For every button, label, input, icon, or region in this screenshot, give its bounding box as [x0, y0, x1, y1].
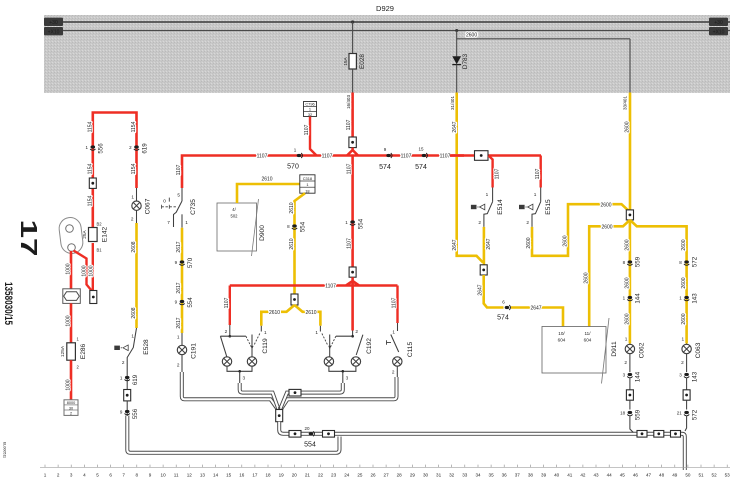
svg-text:40: 40	[554, 473, 560, 478]
wire 1000 below E286	[65, 360, 71, 400]
earth merge connector box	[276, 407, 283, 422]
svg-text:1: 1	[294, 148, 297, 153]
earth lead return to E528	[127, 416, 339, 453]
connector 574 pin15	[415, 147, 427, 172]
svg-text:15: 15	[226, 473, 232, 478]
earth lead C119 to merge	[240, 383, 279, 409]
svg-text:574: 574	[497, 315, 509, 322]
svg-text:554: 554	[358, 218, 365, 229]
svg-text:17: 17	[252, 473, 258, 478]
svg-text:37: 37	[515, 473, 521, 478]
connector box on E528 earth	[124, 390, 131, 401]
junction Y 1107	[347, 148, 358, 156]
connector 554 pin9	[175, 297, 194, 308]
svg-text:1: 1	[315, 330, 318, 335]
svg-text:1000: 1000	[89, 265, 95, 276]
switch C735	[162, 198, 197, 228]
svg-text:28: 28	[397, 473, 403, 478]
main wire 1107 horizontal trunk	[182, 156, 541, 189]
svg-text:E028: E028	[359, 54, 366, 69]
connector box on 1154	[89, 178, 96, 188]
svg-text:31/401: 31/401	[450, 96, 455, 110]
svg-text:8000: 8000	[67, 401, 75, 405]
wire 1107 drop to E514	[489, 156, 501, 188]
svg-text:619: 619	[141, 143, 148, 154]
svg-text:39: 39	[541, 473, 547, 478]
svg-text:29: 29	[410, 473, 416, 478]
svg-text:2: 2	[122, 360, 125, 365]
svg-text:2610: 2610	[261, 177, 272, 183]
svg-text:E515: E515	[545, 199, 552, 215]
svg-text:18: 18	[305, 188, 309, 193]
wire 2617 C735 to C191	[176, 228, 182, 333]
svg-text:8: 8	[287, 224, 290, 229]
svg-text:2600: 2600	[624, 239, 630, 250]
connector box 554 area a	[289, 431, 301, 438]
svg-text:10: 10	[161, 473, 167, 478]
svg-text:1: 1	[534, 192, 537, 197]
svg-text:1000: 1000	[65, 263, 71, 274]
svg-text:2600: 2600	[600, 202, 611, 208]
fuse E286	[60, 337, 87, 370]
svg-text:8: 8	[623, 260, 626, 265]
svg-text:572: 572	[691, 409, 698, 420]
svg-text:2600: 2600	[681, 239, 687, 250]
svg-text:+X10: +X10	[48, 29, 60, 35]
svg-text:31: 31	[436, 473, 442, 478]
svg-text:2617: 2617	[176, 317, 182, 328]
svg-text:C192: C192	[366, 338, 373, 354]
svg-text:1: 1	[264, 330, 267, 335]
svg-text:E142: E142	[102, 226, 109, 242]
svg-text:2647: 2647	[452, 121, 458, 132]
svg-text:16: 16	[239, 473, 245, 478]
svg-text:1107: 1107	[304, 124, 310, 135]
connector box 554 area b	[323, 431, 335, 438]
rail tag right top	[709, 18, 728, 26]
svg-text:+30: +30	[714, 20, 723, 26]
connector box right bus c	[671, 431, 681, 438]
svg-text:+X10: +X10	[713, 29, 725, 35]
connector box right bus b	[654, 431, 664, 438]
svg-text:50: 50	[685, 473, 691, 478]
svg-text:20: 20	[304, 426, 310, 431]
wire 1107 drop to E515	[535, 156, 541, 188]
wire 1000 pillar to ring terminal	[74, 251, 92, 291]
svg-text:26: 26	[370, 473, 376, 478]
svg-text:2: 2	[77, 365, 80, 370]
wire 1107 to C119	[224, 286, 230, 326]
svg-text:2: 2	[131, 217, 134, 222]
svg-text:5: 5	[177, 193, 180, 198]
svg-text:1154: 1154	[131, 163, 137, 174]
svg-text:25: 25	[357, 473, 363, 478]
svg-text:8: 8	[136, 473, 139, 478]
svg-text:1107: 1107	[440, 154, 451, 160]
svg-text:C063: C063	[695, 342, 702, 358]
svg-text:36: 36	[502, 473, 508, 478]
wire 1107 from C796	[304, 117, 317, 156]
wire 2600 from E515 to node	[526, 202, 628, 256]
svg-text:1154: 1154	[87, 121, 93, 132]
svg-text:2608: 2608	[131, 307, 137, 318]
wire 2600 node to D911 pin11	[584, 220, 630, 327]
svg-text:1107: 1107	[346, 119, 352, 130]
svg-text:C318: C318	[303, 176, 312, 181]
svg-text:619: 619	[132, 374, 139, 385]
svg-text:11: 11	[174, 473, 179, 478]
svg-text:32: 32	[308, 112, 312, 117]
svg-text:C735: C735	[190, 199, 197, 215]
svg-text:E286: E286	[80, 343, 87, 359]
svg-text:1000: 1000	[65, 315, 71, 326]
fuse E142	[82, 222, 109, 253]
svg-text:2: 2	[478, 220, 481, 225]
ruler ticks and numbers	[44, 465, 730, 478]
svg-text:C062: C062	[638, 342, 645, 358]
wire 2600 node to C062	[624, 220, 630, 344]
connector 619 pin2	[129, 143, 148, 154]
svg-text:27: 27	[384, 473, 390, 478]
wire 2600 in band	[457, 33, 630, 39]
svg-text:43: 43	[593, 473, 599, 478]
svg-text:42: 42	[580, 473, 586, 478]
svg-text:2647: 2647	[478, 284, 484, 295]
connector ref box C796	[304, 102, 317, 117]
svg-text:554: 554	[187, 297, 194, 308]
wire 1000 from E142 B1	[89, 243, 95, 291]
lamp C063	[681, 337, 702, 373]
svg-text:1000: 1000	[81, 265, 87, 276]
svg-text:1: 1	[681, 337, 684, 342]
svg-text:7: 7	[122, 473, 125, 478]
wire 1107 center down	[347, 156, 353, 268]
svg-text:47: 47	[646, 473, 652, 478]
svg-text:C067: C067	[144, 198, 151, 214]
connector box on 1107 feed	[349, 137, 356, 148]
svg-text:45: 45	[620, 473, 626, 478]
svg-text:1107: 1107	[176, 164, 182, 175]
svg-text:1107: 1107	[392, 297, 398, 308]
svg-text:1: 1	[77, 337, 80, 342]
lamp cluster C119	[220, 325, 269, 383]
wire 1107 to C115	[392, 286, 398, 324]
svg-text:6: 6	[502, 300, 505, 305]
svg-text:35: 35	[489, 473, 495, 478]
svg-text:6: 6	[109, 473, 112, 478]
svg-text:1: 1	[345, 220, 348, 225]
svg-text:1154: 1154	[87, 163, 93, 174]
svg-text:2617: 2617	[176, 241, 182, 252]
wire E028 lower in band	[352, 69, 354, 93]
svg-text:24: 24	[344, 473, 350, 478]
connector box 2610 junction	[291, 294, 298, 305]
svg-text:1: 1	[120, 376, 123, 381]
earth lead bottom run	[279, 422, 685, 470]
lamp C191	[177, 333, 198, 372]
svg-text:9: 9	[120, 410, 123, 415]
svg-text:2617: 2617	[176, 282, 182, 293]
connector 554 pin8	[287, 221, 306, 232]
svg-text:2: 2	[355, 329, 358, 334]
svg-text:0: 0	[163, 199, 166, 204]
wire 1000 pillar down	[65, 251, 71, 289]
connector 574 pin6	[497, 300, 510, 322]
wire above diode	[456, 39, 458, 57]
switch E514	[471, 188, 504, 227]
svg-text:572: 572	[691, 256, 698, 267]
diode D783	[452, 53, 469, 69]
svg-text:10/: 10/	[558, 331, 565, 336]
svg-text:13: 13	[200, 473, 206, 478]
svg-text:1: 1	[679, 296, 682, 301]
svg-text:EL000511: EL000511	[3, 442, 7, 458]
svg-text:554: 554	[300, 221, 307, 232]
wire 1107 from fuse E028 down	[346, 93, 352, 138]
svg-text:1: 1	[486, 192, 489, 197]
svg-text:C119: C119	[262, 338, 269, 354]
svg-text:34: 34	[475, 473, 481, 478]
connector 570 pin9	[175, 257, 194, 268]
svg-text:1107: 1107	[322, 154, 333, 160]
power rail +30	[44, 21, 730, 23]
wire C735 pin5	[177, 188, 182, 201]
svg-text:1: 1	[44, 473, 47, 478]
wire 1154 bridge	[87, 113, 137, 228]
fuse E028	[343, 54, 366, 70]
svg-text:556: 556	[98, 143, 105, 154]
svg-text:570: 570	[187, 257, 194, 268]
svg-text:33: 33	[462, 473, 468, 478]
svg-text:2610: 2610	[289, 202, 295, 213]
svg-text:5: 5	[96, 473, 99, 478]
svg-text:D783: D783	[462, 53, 469, 69]
svg-text:18: 18	[620, 411, 626, 416]
earth C062 with connectors	[620, 371, 642, 432]
svg-text:53: 53	[725, 473, 731, 478]
ring terminal box	[90, 291, 97, 304]
svg-text:2600: 2600	[466, 33, 477, 39]
svg-text:1: 1	[185, 220, 188, 225]
earth lead C115 to merge	[281, 377, 396, 409]
connector 570 pin1	[287, 148, 302, 171]
svg-text:1107: 1107	[347, 238, 353, 249]
svg-text:3: 3	[623, 373, 626, 378]
svg-text:143: 143	[691, 371, 698, 382]
rail tag left top	[44, 18, 63, 26]
svg-text:604: 604	[558, 338, 566, 343]
wire 2647 to D911	[511, 306, 563, 327]
svg-text:570: 570	[287, 164, 299, 171]
svg-text:2608: 2608	[131, 241, 137, 252]
svg-text:15A: 15A	[343, 56, 349, 65]
svg-text:559: 559	[635, 409, 642, 420]
svg-text:2647: 2647	[530, 306, 541, 312]
svg-text:49: 49	[672, 473, 678, 478]
svg-text:144: 144	[635, 371, 642, 382]
wire 2610 from C318 down	[289, 193, 305, 294]
svg-text:46: 46	[633, 473, 639, 478]
wire 2610 split to C192	[295, 305, 321, 326]
svg-text:2600: 2600	[624, 313, 630, 324]
svg-text:2647: 2647	[486, 238, 492, 249]
svg-text:C115: C115	[407, 342, 414, 358]
svg-text:2: 2	[392, 370, 395, 375]
svg-text:14: 14	[213, 473, 219, 478]
svg-text:4: 4	[83, 473, 86, 478]
svg-text:30: 30	[69, 406, 73, 410]
svg-text:8: 8	[679, 260, 682, 265]
svg-text:23: 23	[331, 473, 337, 478]
svg-text:2610: 2610	[289, 238, 295, 249]
svg-text:E528: E528	[143, 339, 150, 355]
svg-text:2: 2	[526, 220, 529, 225]
svg-text:18: 18	[265, 473, 271, 478]
svg-text:554: 554	[304, 442, 316, 449]
svg-text:2: 2	[129, 145, 132, 150]
connector box on 1107 center	[349, 267, 356, 277]
svg-text:7: 7	[167, 220, 170, 225]
svg-text:33/401: 33/401	[622, 96, 627, 110]
connector ref box C318	[300, 175, 315, 194]
busbar band D929	[44, 15, 730, 93]
connector 143 pin1	[679, 293, 698, 304]
ruler baseline	[40, 466, 730, 468]
svg-text:1154: 1154	[131, 121, 137, 132]
svg-text:3: 3	[70, 473, 73, 478]
svg-text:1: 1	[392, 330, 395, 335]
svg-text:D929: D929	[376, 4, 394, 13]
svg-text:1107: 1107	[257, 154, 268, 160]
svg-text:574: 574	[379, 164, 391, 171]
lamp C062	[624, 337, 645, 373]
svg-text:574: 574	[415, 164, 427, 171]
switch E528	[114, 328, 149, 365]
svg-text:1: 1	[623, 296, 626, 301]
svg-text:2: 2	[681, 360, 684, 365]
svg-text:1107: 1107	[535, 168, 541, 179]
svg-text:2: 2	[57, 473, 60, 478]
svg-text:3: 3	[243, 376, 246, 381]
svg-text:30: 30	[423, 473, 429, 478]
svg-text:1: 1	[306, 182, 308, 187]
earth lead C192 to merge	[280, 383, 343, 409]
wire fuse feed E028	[351, 20, 354, 54]
connector 572 pin8	[679, 256, 698, 267]
svg-text:1: 1	[85, 145, 88, 150]
svg-text:1107: 1107	[401, 154, 412, 160]
svg-text:2: 2	[624, 360, 627, 365]
rail tag right bottom	[709, 27, 728, 35]
svg-text:2600: 2600	[526, 237, 532, 248]
svg-text:B2: B2	[97, 222, 103, 227]
wire 2647 from E514	[484, 227, 492, 265]
svg-text:1107: 1107	[325, 284, 336, 290]
svg-text:1154: 1154	[87, 195, 93, 206]
svg-text:3: 3	[679, 373, 682, 378]
svg-text:44: 44	[607, 473, 613, 478]
svg-text:22: 22	[318, 473, 324, 478]
junction box with hexagon	[63, 289, 81, 304]
connector 556 pin9	[120, 401, 139, 419]
component box D900	[217, 199, 266, 256]
svg-text:1: 1	[177, 335, 180, 340]
terminal ref box 8000/30	[64, 400, 78, 416]
wire 2610 split to C119	[261, 305, 294, 326]
connector 554 pin20	[304, 426, 316, 449]
connector box on inner earth lead	[289, 389, 301, 396]
svg-text:9: 9	[149, 473, 152, 478]
node on rail2 for D783	[455, 29, 458, 39]
wire 1107 lower distribution	[230, 277, 398, 330]
svg-text:D900: D900	[259, 225, 266, 241]
svg-text:2647: 2647	[452, 239, 458, 250]
svg-text:20: 20	[292, 473, 298, 478]
lamp cluster C192	[315, 326, 372, 383]
svg-text:2610: 2610	[305, 310, 316, 316]
svg-text:+30: +30	[49, 20, 58, 26]
svg-text:12: 12	[187, 473, 193, 478]
svg-text:41: 41	[567, 473, 573, 478]
svg-text:2: 2	[177, 363, 180, 368]
wire 2608 C067 to E528	[131, 223, 137, 328]
connector box on trunk	[475, 151, 489, 161]
svg-text:1107: 1107	[494, 168, 500, 179]
svg-text:2600: 2600	[681, 277, 687, 288]
svg-text:B1: B1	[97, 248, 103, 253]
svg-text:3: 3	[346, 376, 349, 381]
svg-text:502: 502	[231, 214, 239, 219]
svg-text:21: 21	[677, 411, 683, 416]
wire 2647 to 574	[478, 275, 504, 308]
earth lead C191 to merge	[182, 372, 277, 409]
rail tag left bottom	[44, 27, 63, 35]
svg-text:2600: 2600	[681, 313, 687, 324]
lamp C067	[131, 188, 151, 223]
svg-text:1: 1	[625, 337, 628, 342]
connector 144 pin1	[623, 293, 642, 304]
svg-text:9: 9	[175, 260, 178, 265]
svg-text:2600: 2600	[562, 235, 568, 246]
wire 2600 band to node	[622, 93, 630, 211]
lamp C115	[387, 323, 414, 377]
connector 574 pin9	[379, 147, 392, 171]
svg-text:38: 38	[528, 473, 534, 478]
svg-text:1358030/15: 1358030/15	[2, 282, 14, 325]
svg-text:21: 21	[305, 473, 311, 478]
svg-text:11/: 11/	[584, 331, 591, 336]
terminal pillar B10	[58, 216, 84, 254]
svg-text:9: 9	[175, 300, 178, 305]
svg-text:125A: 125A	[60, 345, 66, 357]
switch E515	[519, 188, 552, 227]
svg-text:15: 15	[418, 147, 424, 152]
earth C063 with connectors	[677, 371, 699, 431]
connector 554 pin1 on 1107	[345, 218, 364, 229]
svg-text:2600: 2600	[584, 272, 590, 283]
svg-text:2: 2	[70, 412, 72, 416]
svg-text:2600: 2600	[624, 277, 630, 288]
svg-text:144: 144	[635, 293, 642, 304]
svg-text:1: 1	[131, 334, 134, 339]
wire E528 earth with connectors	[120, 364, 139, 390]
wire 2600 drop in band	[629, 39, 631, 93]
svg-text:2600: 2600	[625, 121, 631, 132]
wire below diode	[456, 65, 458, 93]
connector 559 pin8	[623, 256, 642, 267]
svg-text:2600: 2600	[601, 225, 612, 231]
svg-text:C191: C191	[191, 343, 198, 359]
